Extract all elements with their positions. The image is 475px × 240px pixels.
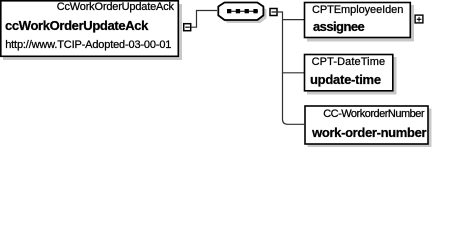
wire branch to update-time — [283, 72, 305, 74]
type label CPT-DateTime — [312, 57, 386, 68]
type label CcWorkOrderUpdateAck — [57, 2, 174, 13]
minus sign — [185, 27, 190, 28]
element box assignee shadow — [307, 5, 414, 42]
element name update-time — [310, 73, 381, 86]
element box work-order-number — [305, 106, 428, 144]
element box work-order-number shadow — [308, 109, 432, 148]
collapse toggle minus box (left of sequence) — [184, 24, 191, 31]
element box ccWorkOrderUpdateAck (parent) shadow — [3, 4, 182, 60]
type label CPTEmployeeIden — [312, 5, 403, 16]
sequence compositor shadow — [221, 6, 266, 24]
sequence dot 1 — [227, 9, 231, 13]
wire parent to sequence — [192, 11, 218, 28]
element name assignee — [313, 20, 364, 33]
expand plus box — [415, 15, 423, 23]
sequence dots connecting line — [227, 10, 258, 12]
minus sign — [272, 11, 277, 12]
wire sequence to children trunk — [278, 12, 304, 124]
element box ccWorkOrderUpdateAck (parent) — [1, 1, 179, 57]
element name ccWorkOrderUpdateAck — [5, 19, 148, 32]
sequence dot 2 — [236, 9, 240, 13]
element box update-time — [305, 55, 393, 91]
sequence dot 3 — [245, 9, 249, 13]
plus sign — [417, 19, 422, 20]
collapse toggle minus box (right of sequence) — [270, 9, 277, 16]
element box assignee — [305, 3, 411, 38]
schema diagram wires and symbols — [0, 0, 475, 151]
namespace http://www.TCIP-Adopted-03-00-01 — [5, 40, 171, 51]
wire branch to assignee — [283, 19, 305, 21]
type label CC-WorkorderNumber — [323, 109, 424, 120]
element name work-order-number — [312, 126, 426, 139]
sequence dot 4 — [253, 9, 257, 13]
sequence compositor octagon — [218, 3, 263, 21]
element box update-time shadow — [307, 57, 397, 95]
